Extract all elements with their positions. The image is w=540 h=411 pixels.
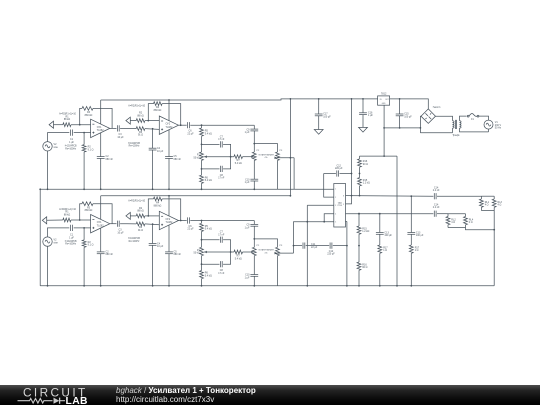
wire R8 to P1 <box>201 136 203 152</box>
wire P2P3 bridge.2 <box>254 239 277 247</box>
capacitor C10 <box>250 178 258 180</box>
wire R2.2 bottom <box>83 247 85 285</box>
junction OA2 V+ bus <box>168 99 170 101</box>
wire C4 top <box>152 129 154 148</box>
svg-text:47к: 47к <box>265 157 268 159</box>
junction rail B left <box>39 188 41 190</box>
junction zobel2 railC <box>410 285 412 287</box>
svg-text:2.2 nF: 2.2 nF <box>433 189 440 192</box>
wire RL13 bottom <box>481 210 494 212</box>
svg-text:9: 9 <box>343 204 344 206</box>
wire regulator gnd down <box>383 105 385 156</box>
wire R2 top <box>83 133 85 145</box>
svg-text:f=1024PCB: f=1024PCB <box>65 241 77 243</box>
wire C9.2 to P2.2 <box>253 226 255 247</box>
capacitor C5.2 <box>165 251 173 253</box>
wire pin9 stub <box>346 196 352 204</box>
svg-text:4 Ω: 4 Ω <box>451 221 455 224</box>
wire R2 bottom <box>83 152 85 189</box>
resistor R6 <box>136 127 145 131</box>
wire R7 to P2 <box>243 156 253 158</box>
wire fb2 to output <box>162 104 181 126</box>
junction OA2 out <box>180 124 182 126</box>
junction OA2.2 V+ bus <box>168 195 170 197</box>
svg-text:TL082: TL082 <box>97 224 104 227</box>
svg-text:10 µF: 10 µF <box>117 136 124 139</box>
wire transformer primary bottom <box>420 132 452 134</box>
svg-text:1 Ω: 1 Ω <box>415 249 419 252</box>
svg-text:50 kΩ: 50 kΩ <box>193 252 200 255</box>
junction outA zobel2 <box>410 195 412 197</box>
wire C11 line <box>294 245 303 247</box>
svg-text:10 µF: 10 µF <box>157 245 164 248</box>
resistor R1.2 <box>63 218 71 222</box>
junction Vcc pin <box>351 195 353 197</box>
wire RL2 stub bot <box>447 225 449 228</box>
svg-text:17 nF: 17 nF <box>218 272 225 275</box>
junction C4 rail <box>152 188 154 190</box>
junction C15 dc- <box>399 127 401 129</box>
node IN port arrow <box>49 121 53 128</box>
capacitor C7 <box>219 141 221 147</box>
resistor R6fb <box>154 102 163 106</box>
junction bridge2 bottom <box>201 168 203 170</box>
wire C6.2 to tone <box>190 220 254 222</box>
wire RL4 stub bot <box>465 225 467 228</box>
resistor R5 <box>136 119 145 123</box>
resistor R3.2 <box>82 202 93 206</box>
svg-text:GND: GND <box>382 103 387 105</box>
capacitor C3 <box>116 125 118 131</box>
wire C12 right <box>340 173 352 175</box>
svg-text:680 nF: 680 nF <box>106 158 114 161</box>
wire ch1 signal down to rail <box>293 158 295 190</box>
junction ch2 line mid <box>323 221 325 223</box>
svg-text:1 µF: 1 µF <box>368 114 373 117</box>
junction P2P3 bridge.2 <box>253 238 255 240</box>
wire zobel1 mid <box>379 234 381 245</box>
wire P3 bottom to rail B <box>277 160 279 189</box>
svg-text:91 Ω: 91 Ω <box>138 229 143 232</box>
logo diode <box>54 397 60 403</box>
bridge rectifier D1 <box>421 109 436 124</box>
potentiometer P1 <box>200 152 204 160</box>
junction C5.2 rail <box>168 285 170 287</box>
svg-text:680 nF: 680 nF <box>106 253 114 256</box>
wire OA2.2 V- stub <box>168 225 170 252</box>
wire C16 bottom <box>362 115 364 128</box>
svg-text:sine: sine <box>54 241 59 244</box>
wire R16b bottom <box>358 270 360 286</box>
wire zobel1 bottom <box>379 253 381 285</box>
capacitor C5 <box>165 156 173 158</box>
wire gnd rail drop <box>396 156 398 286</box>
svg-text:P3: P3 <box>280 245 283 247</box>
wire OA1.2 V- stub <box>100 228 102 252</box>
wire fb2 up.2 <box>148 199 153 216</box>
wire bridge1 left.2 <box>202 239 220 241</box>
junction wiper crossing <box>290 157 292 159</box>
wire P1.2 to R9.2 <box>201 256 203 271</box>
wire RL2 stub top <box>447 214 449 217</box>
wire C15 bottom <box>399 116 401 128</box>
node IN2.2 port arrow <box>126 212 130 219</box>
svg-text:ТДА: ТДА <box>338 201 343 204</box>
resistor R17 <box>378 245 382 253</box>
junction bridge dc- <box>420 127 422 129</box>
junction pin5 railC <box>346 285 348 287</box>
wire C16 top <box>362 99 364 113</box>
svg-text:7812: 7812 <box>381 92 387 95</box>
wire IN to R1 <box>54 124 63 126</box>
wire C12 left <box>324 173 336 175</box>
wire R6.2 to plus2 <box>145 223 159 226</box>
power amp U1 TDA7293 <box>334 184 346 228</box>
regulator M1 7812 <box>378 96 390 105</box>
wire C6 to tone <box>190 124 254 126</box>
svg-text:22 µF: 22 µF <box>187 132 194 135</box>
junction R15b pin <box>358 213 360 215</box>
wire P1 to R9 <box>201 160 203 175</box>
capacitor C14 <box>433 193 435 199</box>
junction plus input.2 <box>83 227 85 229</box>
svg-text:1: 1 <box>335 189 336 191</box>
wire C17 bottom <box>318 116 320 130</box>
junction R9 rail <box>201 188 203 190</box>
junction R16b C12b <box>358 245 360 247</box>
wire OA2 V+ stub <box>168 100 170 121</box>
wire C15 top <box>399 99 401 114</box>
capacitor C7.2 <box>219 237 221 243</box>
svg-text:5.4 kΩ: 5.4 kΩ <box>205 132 212 135</box>
svg-text:F1: F1 <box>471 118 474 121</box>
svg-text:88 kΩ: 88 kΩ <box>137 210 144 213</box>
wire bus bridge vertical <box>289 99 291 196</box>
svg-text:Траф1: Траф1 <box>452 134 460 137</box>
wire bridge left down <box>419 116 422 133</box>
resistor R9 <box>200 175 204 183</box>
wire RL4 stub top <box>465 214 467 217</box>
capacitor C13 <box>376 232 384 234</box>
wire R5.2 to opamp2 <box>145 215 159 217</box>
junction C10 rail B <box>253 188 255 190</box>
wire bridge right to transformer <box>436 116 453 121</box>
resistor R16 <box>358 159 362 167</box>
svg-text:5.4 kΩ: 5.4 kΩ <box>205 275 212 278</box>
svg-text:7293: 7293 <box>337 205 342 207</box>
wire amp ground rail <box>360 155 398 157</box>
svg-text:100 µF: 100 µF <box>404 115 412 118</box>
node fb junction.2 <box>79 219 81 221</box>
svg-text:10 µF: 10 µF <box>157 150 164 153</box>
junction R2.2 rail <box>83 285 85 287</box>
wire R15b to R16b <box>358 234 360 262</box>
wire OA1 V+ stub <box>100 100 102 124</box>
resistor R2.2 <box>82 240 86 247</box>
potentiometer P3 <box>276 152 280 160</box>
wire OA1.2 V+ stub <box>100 196 102 220</box>
svg-text:Гмост1: Гмост1 <box>433 106 441 109</box>
capacitor C9.2 <box>250 223 258 225</box>
svg-text:5.4 kΩ: 5.4 kΩ <box>205 228 212 231</box>
junction C4.2 <box>152 223 154 225</box>
junction R15 pin <box>359 195 361 197</box>
svg-text:22 µF: 22 µF <box>187 228 194 231</box>
wire fuse to V1 <box>479 116 489 120</box>
svg-text:17 nF: 17 nF <box>218 177 225 180</box>
wire C11 to C12b <box>306 245 330 247</box>
resistor R8 <box>200 128 204 136</box>
voltage source V1 <box>484 120 493 129</box>
svg-text:1 µF: 1 µF <box>245 181 250 184</box>
wire bridge2 left <box>202 168 220 170</box>
capacitor C1.2 <box>70 225 72 231</box>
svg-text:10 µF: 10 µF <box>117 231 124 234</box>
wire V+ bus top <box>101 99 378 100</box>
capacitor C12 <box>336 170 338 176</box>
capacitor C9 <box>250 128 258 130</box>
svg-text:880 kΩ: 880 kΩ <box>154 109 162 112</box>
svg-text:47к: 47к <box>265 252 268 254</box>
capacitor C18 <box>407 232 415 234</box>
wire R1 to opamp <box>71 124 91 126</box>
wire C3 to R6 <box>120 127 136 129</box>
svg-text:P2: P2 <box>257 150 260 152</box>
wire C4.2 bottom <box>152 245 154 285</box>
junction R16 C12 <box>359 173 361 175</box>
svg-text:8: 8 <box>343 196 344 198</box>
wire IN.2 to R1.2 <box>47 219 63 221</box>
junction pin3 ch2line <box>306 221 308 223</box>
svg-text:880 kΩ: 880 kΩ <box>154 204 162 207</box>
capacitor C12b <box>329 243 331 249</box>
svg-text:Rs=100Hz: Rs=100Hz <box>65 244 77 246</box>
wire output B <box>346 213 434 215</box>
svg-text:9.1 Ω: 9.1 Ω <box>88 148 94 151</box>
junction Vcc bus <box>351 98 353 100</box>
junction RL24 RL13 <box>493 229 495 231</box>
capacitor C15 <box>396 113 404 115</box>
wire V2.2 top <box>48 228 70 237</box>
svg-text:OUT: OUT <box>385 99 389 101</box>
wire RL1 stub bot <box>480 207 482 210</box>
svg-text:1.2 kΩ: 1.2 kΩ <box>363 182 370 185</box>
wire R16 top <box>359 156 361 159</box>
wire C1.2 to plus input <box>74 227 91 229</box>
wire bridge2 left.2 <box>202 263 220 265</box>
wire IN2 to R5 <box>130 120 136 122</box>
wire zobel2 top <box>410 196 412 232</box>
wire OA1.2 out <box>110 223 117 225</box>
junction bus bridge bottom <box>290 195 292 197</box>
wire C10.2 to rail C <box>253 276 255 286</box>
capacitor C11 <box>302 243 304 249</box>
wire P2.2 to C10.2 <box>253 256 255 275</box>
junction pin3 railC <box>306 285 308 287</box>
wire V2 bottom <box>47 151 49 189</box>
junction wiper node <box>230 156 232 158</box>
svg-text:f=1024PCB: f=1024PCB <box>65 146 77 148</box>
svg-text:100 µF: 100 µF <box>384 234 392 237</box>
wire tone chain top.2 <box>201 221 203 224</box>
footer title text <box>116 386 256 404</box>
wire pin3 input <box>307 204 334 206</box>
capacitor C1 <box>70 130 72 136</box>
junction OA2.2 out <box>180 220 182 222</box>
wire OA1 out <box>110 127 117 129</box>
wire RL13 top <box>481 195 494 197</box>
junction C5 rail <box>168 188 170 190</box>
svg-text:Rs=100Hz: Rs=100Hz <box>65 148 77 150</box>
potentiometer P2.2 <box>252 247 256 255</box>
svg-text:1 µF: 1 µF <box>245 131 250 134</box>
potentiometer P2 <box>252 152 256 160</box>
resistor R8.2 <box>200 223 204 231</box>
wire C9 to P2 <box>253 131 255 152</box>
svg-text:3: 3 <box>335 205 336 207</box>
op-amp OA1 <box>91 119 110 137</box>
junction reg gnd dc- <box>383 127 385 129</box>
svg-text:ЛОГАРИТМИЧЕН: ЛОГАРИТМИЧЕН <box>258 153 274 156</box>
wire fb to output <box>93 108 112 128</box>
wire RL3 stub top <box>493 196 495 199</box>
resistor R9.2 <box>200 271 204 279</box>
wire V1 bottom <box>488 129 490 132</box>
svg-text:100 µF: 100 µF <box>323 115 331 118</box>
resistor R2 <box>82 145 86 152</box>
svg-text:88 kΩ: 88 kΩ <box>64 213 71 216</box>
svg-text:90 Ω: 90 Ω <box>363 163 368 166</box>
wire P2 to C10 <box>253 160 255 179</box>
potentiometer P3.2 <box>276 247 280 255</box>
wire R15 top <box>359 174 361 178</box>
capacitor C6 <box>187 122 189 128</box>
junction V2.2 rail <box>47 285 49 287</box>
wire C2.2 to rail <box>100 254 102 286</box>
resistor RL4 <box>464 217 468 225</box>
capacitor C16 <box>359 112 367 114</box>
capacitor C10.2 <box>250 274 258 276</box>
junction bridge1 top <box>201 144 203 146</box>
svg-text:IN: IN <box>380 99 382 101</box>
wire OA2.2 out <box>179 220 187 222</box>
resistor RL1 <box>480 199 484 207</box>
capacitor C2 <box>97 156 105 158</box>
junction V2 rail <box>47 188 49 190</box>
junction C15 bus <box>399 98 401 100</box>
wire C5 to rail <box>168 158 170 189</box>
wire R8.2 to P1.2 <box>201 232 203 248</box>
node IN.2 port arrow <box>42 217 46 224</box>
svg-text:17 nF: 17 nF <box>218 233 225 236</box>
voltage source V2.2 <box>43 237 52 246</box>
svg-text:5: 5 <box>335 222 336 224</box>
op-amp OA2.2 <box>159 211 178 229</box>
junction bridge1 top.2 <box>201 239 203 241</box>
wire R7.2 to P2.2 <box>243 251 253 253</box>
wire fb2 up <box>148 104 153 121</box>
wire R9 to rail <box>201 183 203 189</box>
wire R2.2 top <box>83 228 85 240</box>
wire R1.2 to opamp <box>71 219 91 221</box>
wire transformer secondary bottom <box>460 128 489 132</box>
node fb junction <box>79 124 81 126</box>
svg-text:f=1024PCB: f=1024PCB <box>128 143 140 145</box>
junction tone top.2 <box>201 220 203 222</box>
junction ch2 branch <box>293 245 295 247</box>
wire fb to output.2 <box>93 204 112 224</box>
wire R15b top <box>358 214 360 226</box>
svg-text:1 µF: 1 µF <box>245 226 250 229</box>
wire pin5 down <box>346 222 348 286</box>
wire R5 to opamp2 <box>145 120 159 122</box>
junction C16 bus <box>362 98 364 100</box>
node IN2 port arrow <box>126 117 130 124</box>
svg-text:4: 4 <box>335 214 336 216</box>
capacitor C17 <box>315 113 323 115</box>
capacitor C4 <box>149 147 157 149</box>
wire C5.2 to rail <box>168 254 170 286</box>
ground C17 <box>314 130 323 135</box>
wire pin3 branch down <box>306 205 308 285</box>
wire pin4 jog <box>324 214 334 222</box>
svg-text:100 µF: 100 µF <box>416 234 424 237</box>
logo wire and resistor <box>18 398 53 403</box>
svg-text:A=R2(R1+1)=10: A=R2(R1+1)=10 <box>128 104 146 107</box>
svg-text:5.4 kΩ: 5.4 kΩ <box>205 179 212 182</box>
svg-text:Rs=100Hz: Rs=100Hz <box>129 146 141 148</box>
wire rail B <box>40 188 334 190</box>
wire zobel1 top <box>379 214 381 233</box>
junction pin5 C12b <box>346 245 348 247</box>
svg-text:5.4 kΩ: 5.4 kΩ <box>235 257 242 260</box>
wire C10 to rail B <box>253 181 255 189</box>
wire transformer primary bottom stub <box>452 128 454 133</box>
wire fb up <box>80 108 82 124</box>
wire fb2 to output.2 <box>162 199 181 221</box>
capacitor C6.2 <box>187 217 189 223</box>
wire RL24 link <box>466 228 495 230</box>
svg-text:sine: sine <box>54 146 59 149</box>
svg-text:22 µF: 22 µF <box>311 246 318 249</box>
footer bar <box>0 385 540 406</box>
wire zobel2 bottom <box>410 253 412 285</box>
node fb2 junction <box>147 120 149 122</box>
wire C4.2 top <box>152 224 154 243</box>
P2 wiper arrow <box>251 155 253 158</box>
wire OA2.2 V+ stub <box>168 196 170 216</box>
svg-text:4 Ω: 4 Ω <box>498 204 502 207</box>
svg-text:4 Ω: 4 Ω <box>485 204 489 207</box>
resistor RL3 <box>492 199 496 207</box>
svg-text:f=1024PCB: f=1024PCB <box>128 238 140 240</box>
wire C12b right <box>333 245 347 247</box>
junction outB zobel1 <box>379 213 381 215</box>
svg-text:50 kΩ: 50 kΩ <box>193 156 200 159</box>
wire bridge1 right.2 <box>223 240 231 252</box>
capacitor C4.2 <box>149 243 157 245</box>
svg-text:ЛОГАРИТМИЧЕН: ЛОГАРИТМИЧЕН <box>258 249 274 252</box>
svg-text:17 nF: 17 nF <box>218 138 225 141</box>
wire C4 bottom <box>152 150 154 189</box>
svg-text:A=R2(R1+1)=10: A=R2(R1+1)=10 <box>128 200 146 203</box>
resistor R7.2 <box>234 250 243 254</box>
svg-text:220 µF: 220 µF <box>327 253 335 256</box>
wire V2.2 bottom <box>47 246 49 285</box>
wire bridge1 left <box>202 143 220 145</box>
resistor R16b <box>357 262 361 270</box>
wire P3.2 wiper out <box>277 252 294 254</box>
